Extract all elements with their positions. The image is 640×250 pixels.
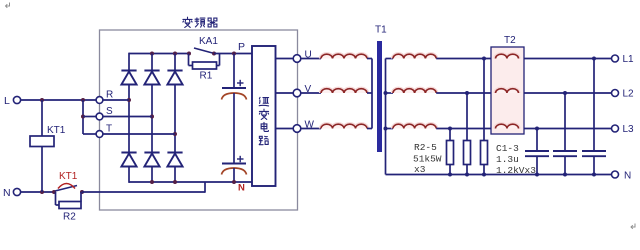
node S-leg2: [150, 115, 154, 119]
wire resistor riser x484: [483, 59, 485, 141]
label 1.3u: [496, 154, 519, 165]
wire primary star: [371, 59, 373, 129]
node junction KT1-coil bottom: [40, 190, 44, 194]
wire resistor riser x450: [449, 129, 451, 141]
svg-text:W: W: [305, 120, 315, 131]
node contact left: [52, 190, 56, 194]
inductor box T2: [491, 47, 524, 134]
label T1: [375, 25, 387, 36]
wire capacitor bottom x565: [564, 156, 566, 174]
node contact right: [80, 190, 84, 194]
inverter enclosure box (变频器): [100, 30, 298, 210]
wire to T: [83, 133, 97, 135]
label KT1 coil: [47, 125, 66, 136]
wire U to coil: [301, 58, 321, 60]
wire V coil to star: [367, 92, 372, 94]
node junction S branch: [81, 115, 85, 119]
label KT1 contact: [59, 171, 78, 182]
label P: [238, 41, 245, 53]
paragraph mark top-left: [6, 3, 10, 8]
wire inverter to U: [276, 58, 294, 60]
wire sec row1: [436, 58, 611, 60]
node capacitor top x565: [563, 91, 567, 95]
node bottom leg2: [150, 180, 154, 184]
node resistor bottom x450: [448, 173, 452, 177]
wire capacitor bottom x594: [593, 156, 595, 174]
wire sec row2: [436, 92, 611, 94]
label N dc bus: [238, 183, 245, 194]
terminal W: [293, 125, 301, 133]
transformer T1 primary coil W: [321, 124, 367, 128]
svg-text:T2: T2: [504, 35, 516, 46]
terminal U: [293, 55, 301, 63]
wire resistor bottom x450: [449, 165, 451, 175]
wire R2 left lead: [56, 192, 60, 205]
resistor R1: [193, 62, 217, 69]
inductor T2 coil 3: [496, 124, 519, 128]
wire C-lower to dc bus: [233, 168, 235, 182]
terminal L2: [612, 90, 619, 97]
wire capacitor riser x594: [593, 59, 595, 152]
wire capacitor riser x537: [536, 129, 538, 152]
wire riser to dc bus: [204, 182, 206, 193]
wire C-upper to C-lower: [233, 93, 235, 164]
svg-text:S: S: [106, 106, 113, 117]
label 51k5W: [413, 154, 442, 165]
transformer T1 primary coil V: [321, 89, 367, 93]
capacitor C x594: [582, 151, 606, 156]
wire S row: [100, 116, 153, 118]
contact KT1 delay arc: [58, 184, 75, 189]
svg-text:R1: R1: [200, 71, 213, 82]
inductor T2 coil 1: [496, 54, 519, 58]
transformer T1 secondary coil 1: [393, 54, 436, 58]
wire capacitor riser x565: [564, 93, 566, 151]
label W: [305, 120, 315, 131]
node P: [232, 52, 236, 56]
op-block inverter 逆变电路: [252, 46, 276, 186]
wire sec stub3: [386, 128, 394, 130]
svg-text:T: T: [106, 124, 112, 135]
node top bus leg3: [173, 52, 177, 56]
node top bus leg2: [150, 52, 154, 56]
node C-lower bus: [232, 180, 236, 184]
node junction L bus: [81, 98, 85, 102]
svg-text:51k5W: 51k5W: [413, 154, 442, 165]
node bottom leg3: [173, 180, 177, 184]
node secondary V: [384, 91, 388, 95]
svg-text:x3: x3: [414, 164, 426, 175]
transformer T1 primary coil U: [321, 54, 367, 58]
transformer T1 secondary coil 3: [393, 124, 436, 128]
label x3: [414, 164, 426, 175]
wire R1 right lead: [217, 54, 220, 66]
wire leg3 bottom: [174, 167, 176, 183]
wire inverter to V: [276, 92, 294, 94]
node T-leg3: [173, 132, 177, 136]
node KA1 left: [187, 52, 191, 56]
svg-text:L: L: [4, 95, 10, 107]
capacitor C-upper plus: [237, 80, 244, 86]
transformer T1 secondary coil 2: [393, 89, 436, 93]
label L3: [623, 124, 635, 135]
node KA1 right: [212, 52, 216, 56]
node resistor top x467: [465, 91, 469, 95]
wire R row: [100, 99, 130, 101]
node capacitor top x537: [535, 127, 539, 131]
wire bottom dc bus: [129, 181, 252, 183]
label U: [305, 50, 312, 61]
node resistor bottom x467: [465, 173, 469, 177]
label C1-3: [496, 143, 519, 154]
terminal S: [96, 106, 113, 120]
wire leg1 bottom: [128, 167, 130, 183]
diode D4: [121, 153, 136, 167]
label L1: [623, 54, 635, 65]
wire T row: [100, 133, 176, 135]
terminal T: [96, 124, 112, 138]
contact KA1 arm: [194, 48, 213, 53]
wire R2 right lead: [80, 192, 82, 202]
node capacitor top x594: [592, 57, 596, 61]
wire bus vertical: [82, 100, 84, 134]
contact KT1 arm: [55, 186, 77, 192]
wire leg3 mid: [174, 85, 176, 153]
terminal L label: [4, 95, 10, 107]
wire capacitor bottom x537: [536, 156, 538, 174]
svg-text:U: U: [305, 50, 312, 61]
wire sec stub1: [386, 58, 394, 60]
wire W to coil: [301, 128, 321, 130]
wire P to C-upper: [233, 54, 235, 89]
svg-text:T1: T1: [375, 25, 387, 36]
paragraph mark bottom-right: [631, 224, 635, 229]
wire V to coil: [301, 92, 321, 94]
wire U coil to star: [367, 58, 372, 60]
svg-text:L1: L1: [623, 54, 635, 65]
label R2: [63, 212, 76, 223]
wire resistor bottom x467: [466, 165, 468, 175]
node secondary W: [384, 127, 388, 131]
svg-text:KA1: KA1: [199, 36, 218, 47]
label T2: [504, 35, 516, 46]
svg-text:C1-3: C1-3: [496, 143, 519, 154]
wire L to bus: [21, 99, 97, 101]
label 逆变电路: [259, 97, 268, 144]
capacitor C-upper curved plate: [222, 93, 247, 100]
wire leg2 bottom: [151, 167, 153, 183]
terminal N right: [612, 171, 619, 178]
wire to S: [83, 116, 97, 118]
wire R1 left lead: [189, 54, 193, 66]
label KA1: [199, 36, 218, 47]
label R2-5: [414, 142, 437, 153]
wire top bus: [129, 53, 189, 55]
svg-text:R: R: [106, 90, 113, 101]
wire N to contact: [21, 191, 55, 193]
wire leg2 mid: [151, 85, 153, 153]
svg-text:KT1: KT1: [47, 125, 66, 136]
node capacitor bottom x537: [535, 173, 539, 177]
label N right: [624, 171, 631, 182]
wire secondary star: [385, 59, 387, 175]
diode D2: [144, 54, 159, 85]
label V: [305, 84, 312, 95]
wire inverter to W: [276, 128, 294, 130]
wire KT1 coil bottom lead: [41, 147, 43, 193]
svg-text:R2: R2: [63, 212, 76, 223]
resistor 51k x467: [464, 141, 471, 165]
capacitor C x537: [525, 151, 549, 156]
svg-text:KT1: KT1: [59, 171, 78, 182]
capacitor C-lower plus: [237, 156, 244, 162]
svg-text:N: N: [3, 187, 11, 199]
capacitor C-lower curved plate: [222, 168, 247, 175]
svg-text:P: P: [238, 41, 245, 53]
label R1: [200, 71, 213, 82]
terminal V: [293, 89, 301, 97]
svg-text:L3: L3: [623, 124, 635, 135]
wire KA1 to P: [214, 53, 252, 55]
capacitor C-lower top plate: [222, 163, 246, 165]
svg-text:R2-5: R2-5: [414, 142, 437, 153]
terminal N: [13, 188, 20, 195]
svg-text:N: N: [624, 171, 631, 182]
wire resistor bottom x484: [483, 165, 485, 175]
wire N bus: [386, 174, 612, 176]
terminal R: [96, 90, 113, 104]
resistor 51k x450: [447, 141, 454, 165]
wire W coil to star: [367, 128, 372, 130]
diode D6: [167, 153, 182, 167]
label L2: [623, 89, 635, 100]
wire sec row3: [436, 128, 611, 130]
svg-text:V: V: [305, 84, 312, 95]
title 变频器: [183, 17, 217, 27]
wire top bus corner: [128, 53, 130, 71]
capacitor C x565: [553, 151, 577, 156]
svg-text:1.3u: 1.3u: [496, 154, 519, 165]
terminal L: [13, 96, 20, 103]
capacitor C-upper top plate: [222, 87, 246, 89]
diode D5: [144, 153, 159, 167]
wire resistor riser x467: [466, 93, 468, 141]
relay coil KT1: [30, 136, 54, 147]
node resistor top x450: [448, 127, 452, 131]
wire leg1 mid: [128, 85, 130, 153]
wire sec stub2: [386, 92, 394, 94]
node capacitor bottom x594: [592, 173, 596, 177]
svg-text:L2: L2: [623, 89, 635, 100]
resistor 51k x484: [481, 141, 488, 165]
diode D1: [121, 71, 136, 85]
inductor T2 coil 2: [496, 89, 519, 93]
terminal L1: [612, 55, 619, 62]
node R-leg1: [127, 98, 131, 102]
node resistor top x484: [482, 57, 486, 61]
node resistor bottom x484: [482, 173, 486, 177]
resistor R2: [59, 202, 81, 209]
node junction KT1-coil branch: [40, 98, 44, 102]
terminal N label: [3, 187, 11, 199]
terminal L3: [612, 125, 619, 132]
wire contact to box: [82, 191, 205, 193]
label 1.2kVx3: [496, 165, 536, 176]
svg-text:N: N: [238, 183, 245, 194]
wire KT1 coil top lead: [41, 100, 43, 136]
transformer T1 core: [377, 41, 382, 152]
diode D3: [167, 54, 182, 85]
node capacitor bottom x565: [563, 173, 567, 177]
